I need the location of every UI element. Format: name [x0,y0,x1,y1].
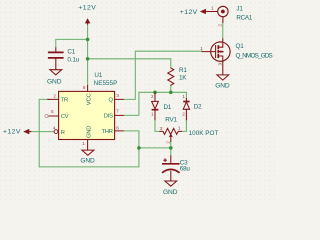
U1 pin 4 R inverted [53,126,65,136]
diode D1 [151,92,172,120]
resistor R1 [168,67,188,85]
wire THR junction to C3 junction [139,147,171,149]
svg-text:GND: GND [80,158,95,165]
svg-text:1K: 1K [179,75,187,82]
svg-text:R: R [61,130,65,136]
power +12V top-right [180,9,218,16]
svg-text:R1: R1 [179,67,187,74]
svg-text:GND: GND [215,83,230,90]
power +12V at U1 R pin [3,128,31,135]
junction diode bus at D1 [153,91,157,95]
junction THR/bottom run [137,146,141,150]
svg-text:8: 8 [83,85,86,90]
svg-text:2: 2 [53,94,56,99]
wire D2 bottom to RV1 pin1 [182,120,187,131]
svg-text:GND: GND [47,79,62,86]
svg-text:Q_NMOS_GDS: Q_NMOS_GDS [236,53,273,60]
svg-text:Q1: Q1 [236,43,245,50]
svg-text:THR: THR [101,129,112,135]
svg-text:C1: C1 [67,49,75,56]
svg-text:7: 7 [116,109,119,114]
capacitor C3 polarized [162,156,190,181]
svg-text:100K POT: 100K POT [189,130,219,137]
svg-text:1: 1 [200,46,203,51]
svg-text:DIS: DIS [104,114,113,120]
svg-text:1: 1 [82,141,85,146]
svg-text:3: 3 [116,93,119,98]
svg-text:TR: TR [61,98,68,104]
svg-text:1: 1 [151,111,154,116]
U1 pin 1 GND [82,126,92,150]
svg-text:+12V: +12V [78,4,96,11]
svg-text:GND: GND [87,126,93,138]
connector J1 RCA1 [211,5,253,26]
wire +12V to U1 R pin4 [31,131,55,133]
junction RV1 wiper / C3 [169,146,173,150]
junction diode bus at R1 [169,91,173,95]
transistor Q1 Q_NMOS_GDS [200,39,272,75]
svg-text:+12V: +12V [3,128,21,135]
svg-text:1: 1 [178,126,181,131]
svg-text:2: 2 [182,111,185,116]
wire +12V to U1 VCC vertical [87,24,89,86]
wire J1 pin2 to Q1 drain [222,23,224,39]
U1 pin 2 TR [48,94,68,104]
svg-text:2: 2 [151,94,154,99]
diode D2 [182,94,202,120]
svg-text:D2: D2 [194,103,202,110]
svg-text:1: 1 [182,94,185,99]
svg-text:5: 5 [51,109,54,114]
power +12V top-left [78,4,96,24]
wire U1 TR pin2 down left run [39,99,49,166]
wire junction to C1 top [56,39,88,47]
svg-text:3: 3 [217,62,222,65]
wire U1 Q pin3 to Q1 gate [123,51,201,99]
wire +12V to R1 top [88,59,171,68]
svg-text:Q: Q [108,98,113,104]
junction at VCC/R1 branch [86,57,90,61]
svg-text:J1: J1 [236,5,243,12]
svg-text:RV1: RV1 [165,116,177,123]
ground below C3 [163,181,178,196]
U1 pin 6 THR [101,125,123,135]
wire diode bus horizontal [139,92,187,98]
U1 pin 3 Q [108,93,123,104]
op-amp U1 NE555P body [59,72,118,140]
svg-text:U1: U1 [94,72,102,79]
svg-text:4: 4 [53,126,56,131]
svg-text:2: 2 [218,40,223,43]
svg-text:3: 3 [160,126,163,131]
ground below C1 [47,70,62,86]
wire U1 THR pin6 down to bottom run [39,131,139,167]
ground below U1 [80,150,95,165]
U1 pin 8 VCC [83,85,93,105]
wire U1 DIS pin7 to diode bus [123,92,138,115]
svg-text:+12V: +12V [180,9,198,16]
svg-text:CV: CV [61,114,69,120]
U1 pin 7 DIS [104,109,124,120]
wire R1 bottom to diode bus [170,85,172,92]
svg-text:68u: 68u [180,165,191,172]
wire D1 bottom to RV1 pin3 [155,120,160,131]
svg-text:VCC: VCC [87,94,93,106]
ground below Q1 [215,75,230,90]
wire RV1 wiper to C3 top [170,142,172,156]
svg-text:GND: GND [163,189,178,196]
svg-text:D1: D1 [164,104,172,111]
svg-text:6: 6 [116,125,119,130]
potentiometer RV1 [160,116,219,143]
svg-text:NE555P: NE555P [94,80,118,87]
svg-text:2: 2 [165,141,170,144]
U1 pin 5 CV [45,109,69,120]
svg-text:RCA1: RCA1 [236,14,252,21]
capacitor C1 [48,48,80,70]
junction at VCC/C1 branch [86,38,90,42]
svg-text:1: 1 [211,6,214,11]
svg-text:2: 2 [218,24,223,27]
svg-text:0.1u: 0.1u [67,56,79,63]
